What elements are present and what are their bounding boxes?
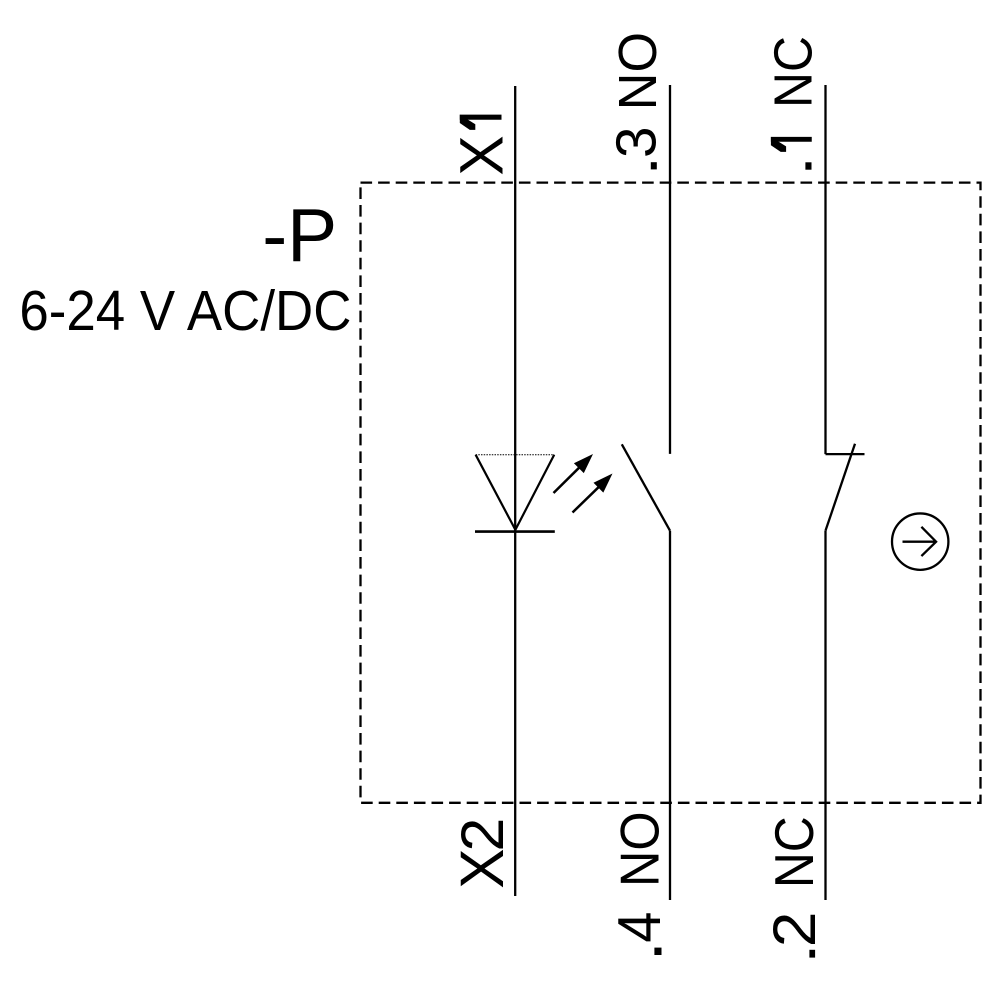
LED light arrow 1 — [554, 454, 594, 493]
wire .1 top segment — [824, 85, 826, 454]
svg-text:2: 2 — [761, 912, 828, 948]
NC contact seat bar — [826, 453, 865, 455]
terminal label .1 NC — [763, 36, 823, 170]
terminal label X1 — [447, 115, 515, 176]
svg-text:NO: NO — [608, 32, 668, 110]
svg-text:NC: NC — [763, 816, 825, 888]
NC contact blade — [826, 444, 855, 531]
wire .3 top segment — [669, 85, 671, 454]
terminal label .4 NO — [606, 812, 673, 956]
svg-text:6-24 V AC/DC: 6-24 V AC/DC — [19, 279, 351, 342]
svg-text:4: 4 — [606, 912, 673, 943]
LED light arrow 2 — [573, 474, 613, 513]
svg-text:X: X — [448, 849, 516, 889]
wire X1-X2 — [514, 86, 516, 896]
svg-text:2: 2 — [449, 818, 516, 852]
svg-text:3: 3 — [604, 127, 667, 158]
terminal label X2 — [448, 818, 516, 889]
svg-text:NC: NC — [763, 36, 823, 108]
actuator arrow — [903, 527, 937, 556]
wire .2 bottom segment — [824, 530, 826, 900]
wire .4 bottom segment — [669, 531, 671, 900]
enclosure dashed box — [361, 183, 981, 803]
svg-text:-P: -P — [262, 193, 337, 277]
LED D1 triangle — [476, 455, 555, 530]
LED cathode bar — [475, 530, 555, 533]
actuator symbol circle — [892, 513, 948, 569]
svg-text:NO: NO — [609, 812, 670, 888]
terminal label .2 NC — [761, 816, 828, 957]
NO contact blade — [622, 444, 670, 530]
svg-text:X: X — [447, 135, 515, 175]
terminal label .3 NO — [604, 32, 668, 169]
